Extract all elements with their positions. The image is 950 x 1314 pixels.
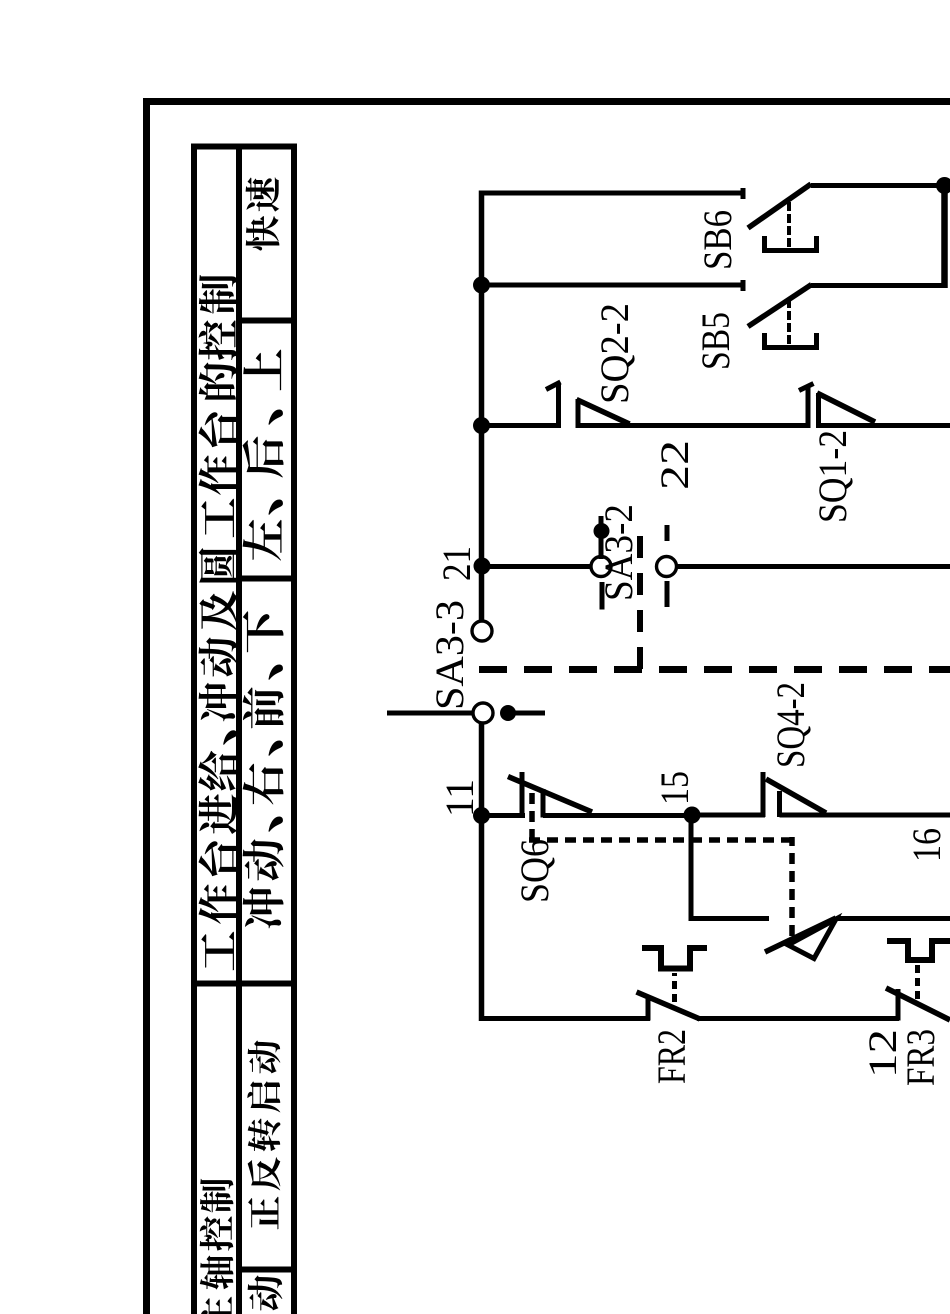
wire below SB5 bbox=[811, 283, 947, 288]
pushbutton SB5 bbox=[743, 280, 819, 350]
svg-text:SA3-2: SA3-2 bbox=[596, 504, 641, 601]
svg-text:21: 21 bbox=[434, 546, 479, 581]
wire SB5-SB6 tie bbox=[941, 183, 948, 288]
wire to SQ2-2 bbox=[482, 423, 559, 428]
selector SA3 linkage dashed bbox=[479, 666, 950, 673]
selector contact SA3-3 bbox=[387, 621, 545, 723]
limit switch SQ4-2 bbox=[763, 772, 826, 817]
table cell text: brake (cut) bbox=[248, 1275, 283, 1310]
linkage dashed vertical bbox=[529, 837, 795, 843]
node 15 junction bbox=[684, 807, 701, 824]
table horizontal line bottom bbox=[291, 147, 297, 1314]
selector contact SA3-2 bbox=[591, 516, 677, 669]
node 21 junction bbox=[474, 558, 491, 575]
wire below SA3-2 bbox=[676, 564, 950, 569]
handle-operated contact blade bbox=[765, 918, 836, 952]
wire 16 bbox=[780, 813, 950, 818]
wire 21 branch bbox=[482, 564, 593, 569]
wire 15-SQ4-2 bbox=[692, 813, 765, 818]
node SB5 junction bbox=[473, 277, 490, 294]
table divider left-back-up / rapid bbox=[239, 318, 297, 324]
svg-text:SB6: SB6 bbox=[695, 210, 740, 270]
limit switch SQ2-2 bbox=[546, 382, 630, 428]
wire 11-15 bbox=[543, 813, 692, 818]
table divider brake/start cells bbox=[239, 1267, 297, 1273]
svg-text:SB5: SB5 bbox=[693, 312, 738, 370]
limit switch SQ1-2 bbox=[799, 384, 875, 429]
table divider spindle/worktable bbox=[191, 981, 297, 987]
wire below SQ1-2 bbox=[819, 423, 950, 428]
pushbutton SB6 bbox=[743, 184, 819, 253]
svg-text:22: 22 bbox=[652, 440, 697, 490]
linkage dashed SQ6 spur bbox=[529, 786, 535, 840]
node tie junction bbox=[936, 177, 950, 194]
wire 15 to handle contact (L) bbox=[689, 815, 694, 919]
node 11 junction bbox=[473, 807, 490, 824]
wire 12 segment bbox=[697, 1016, 899, 1021]
svg-text:11: 11 bbox=[437, 779, 482, 817]
svg-text:SQ6: SQ6 bbox=[512, 839, 557, 903]
svg-text:SA3-3: SA3-3 bbox=[427, 600, 472, 710]
wire below handle contact bbox=[836, 916, 950, 921]
page border right line bbox=[143, 98, 950, 105]
table cell text: fwd/rev start bbox=[247, 1040, 280, 1229]
table header text: worktable feed jog and rotary table control bbox=[198, 275, 237, 971]
table divider jog-right-front-down / left-back-up bbox=[239, 576, 297, 582]
thermal contact FR2 bbox=[637, 948, 708, 1021]
wire to SB6 bbox=[482, 191, 744, 196]
wire 11 branch upper bbox=[482, 813, 526, 818]
table horizontal line middle bbox=[236, 147, 242, 1314]
wire FR branch vertical bbox=[482, 1016, 651, 1021]
table horizontal line top bbox=[191, 147, 197, 1314]
wire bus 11-21 horizontal bbox=[479, 722, 485, 1021]
table header text: spindle control bbox=[200, 1179, 234, 1314]
svg-text:SQ2-2: SQ2-2 bbox=[592, 303, 637, 404]
wire below SB6 bbox=[811, 183, 950, 188]
node SQ2-2 junction bbox=[473, 417, 490, 434]
wire to SB5 bbox=[482, 283, 744, 288]
svg-text:SQ1-2: SQ1-2 bbox=[810, 430, 855, 523]
svg-text:SQ4-2: SQ4-2 bbox=[768, 682, 813, 768]
svg-text:16: 16 bbox=[904, 828, 949, 862]
table right edge bbox=[191, 144, 297, 150]
handle contact triangle bbox=[788, 919, 836, 959]
table cell text: rapid bbox=[246, 177, 280, 250]
svg-text:FR3: FR3 bbox=[898, 1029, 943, 1086]
page border top line bbox=[143, 98, 150, 1314]
wire 22 bbox=[578, 423, 808, 428]
thermal contact FR3 bbox=[886, 941, 950, 1021]
linkage dashed handle spur bbox=[789, 837, 795, 936]
svg-text:FR2: FR2 bbox=[649, 1029, 694, 1084]
limit switch SQ6 bbox=[508, 772, 592, 818]
table cell text: jog right front down bbox=[243, 611, 284, 928]
table cell text: left back up bbox=[243, 349, 284, 560]
svg-text:15: 15 bbox=[652, 771, 697, 805]
